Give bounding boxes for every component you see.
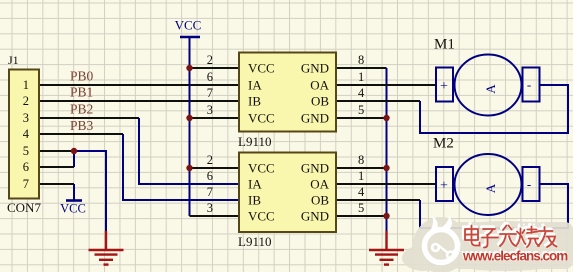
svg-text:8: 8: [358, 53, 364, 67]
svg-text:PB1: PB1: [70, 85, 93, 100]
wire VCC rail to U2.3: [190, 215, 240, 217]
power VCC bottom symbol: [66, 199, 82, 202]
svg-text:2: 2: [23, 94, 29, 108]
svg-text:OA: OA: [310, 78, 329, 93]
junction dot VCC/U2.2: [186, 165, 192, 171]
wire U1.5 GND stub: [336, 117, 387, 119]
svg-text:1: 1: [23, 78, 29, 92]
svg-text:L9110: L9110: [238, 134, 271, 149]
wire VCC rail to U1.2: [190, 67, 240, 69]
svg-text:IA: IA: [248, 78, 262, 93]
svg-text:IB: IB: [248, 193, 261, 208]
junction dot GND/U2.5: [383, 213, 389, 219]
connector J1 body: [9, 70, 39, 199]
svg-text:OB: OB: [311, 94, 329, 109]
junction dot J1.5: [71, 148, 77, 154]
watermark text dianzifashaoyou: [464, 224, 556, 246]
svg-text:5: 5: [358, 103, 364, 117]
svg-text:CON7: CON7: [7, 200, 41, 215]
svg-text:4: 4: [358, 86, 365, 100]
svg-text:L9110: L9110: [238, 234, 271, 249]
svg-text:-: -: [527, 77, 531, 92]
wire U1.8 GND to right rail: [336, 67, 387, 69]
wire U1.OA to M1 plus: [336, 84, 436, 86]
junction dot VCC/U1.3: [186, 115, 192, 121]
svg-text:7: 7: [23, 177, 29, 191]
junction dot VCC/U1.2: [186, 65, 192, 71]
svg-text:4: 4: [23, 127, 30, 141]
svg-text:1: 1: [358, 70, 364, 84]
wire U2.OA to M2 plus: [336, 183, 436, 185]
wire VCC rail left vertical: [189, 37, 191, 216]
svg-text:2: 2: [207, 53, 213, 67]
svg-text:+: +: [440, 79, 448, 94]
svg-text:GND: GND: [301, 209, 329, 224]
wire U2.OB to M2 minus: [336, 199, 420, 201]
watermark blob: [402, 217, 573, 272]
wire J1.7 stub: [40, 183, 74, 185]
IC U1 L9110 body: [239, 53, 336, 132]
svg-text:+: +: [440, 179, 448, 194]
wire PB2 net J1.3 to U2.IA: [40, 117, 139, 119]
motor M2 minus terminal box: [523, 167, 540, 201]
wire U2.5 GND stub: [336, 215, 387, 217]
svg-text:5: 5: [23, 144, 29, 158]
svg-text:A: A: [483, 183, 498, 193]
svg-text:GND: GND: [301, 161, 329, 176]
svg-text:2: 2: [207, 153, 213, 167]
watermark logo circle: [425, 216, 461, 263]
wire J1.5 to ground: [40, 150, 74, 152]
svg-text:7: 7: [207, 86, 213, 100]
motor M2 circle: [455, 154, 522, 215]
svg-text:VCC: VCC: [248, 111, 275, 126]
svg-text:PB2: PB2: [70, 102, 93, 117]
svg-text:VCC: VCC: [248, 209, 275, 224]
wire VCC rail to U2.2: [190, 167, 240, 169]
svg-text:www.elecfans.com: www.elecfans.com: [462, 249, 568, 264]
wire J1.5-J1.6 vertical tie: [73, 151, 75, 167]
svg-text:3: 3: [207, 103, 213, 117]
svg-text:VCC: VCC: [248, 61, 275, 76]
junction dot GND/U2.8: [383, 165, 389, 171]
wire PB0 net J1.1 to U1.IA: [40, 84, 239, 86]
wire U1.OB to M1 minus: [336, 100, 420, 102]
ground GND1: [89, 231, 124, 265]
svg-text:VCC: VCC: [175, 18, 202, 33]
svg-text:M2: M2: [433, 136, 454, 152]
svg-text:-: -: [527, 177, 531, 192]
svg-text:4: 4: [358, 185, 365, 199]
svg-text:6: 6: [207, 169, 213, 183]
junction dot GND/U1.5: [383, 115, 389, 121]
svg-text:GND: GND: [301, 111, 329, 126]
motor M1 circle: [455, 55, 522, 116]
svg-text:IB: IB: [248, 94, 261, 109]
ground GND2: [369, 231, 404, 265]
wire PB1 net J1.2 to U1.IB: [40, 100, 239, 102]
motor M1 plus terminal box: [436, 68, 453, 102]
svg-text:VCC: VCC: [60, 202, 86, 216]
svg-text:6: 6: [207, 70, 213, 84]
svg-text:8: 8: [358, 153, 364, 167]
svg-text:M1: M1: [434, 37, 455, 53]
svg-text:A: A: [483, 84, 498, 94]
svg-text:PB3: PB3: [70, 118, 94, 133]
svg-text:IA: IA: [248, 177, 262, 192]
svg-text:6: 6: [23, 160, 29, 174]
svg-text:7: 7: [207, 185, 213, 199]
wire J1.7 to VCC power: [73, 184, 75, 200]
svg-text:1: 1: [358, 169, 364, 183]
svg-text:VCC: VCC: [248, 161, 275, 176]
svg-text:OA: OA: [310, 177, 329, 192]
svg-text:J1: J1: [8, 53, 19, 67]
wire PB3 net J1.4 to U2.IB: [40, 133, 123, 135]
wire U2.8 GND stub: [336, 167, 387, 169]
motor M2 plus terminal box: [436, 167, 453, 201]
motor M1 minus terminal box: [523, 68, 540, 102]
IC U2 L9110 body: [239, 153, 336, 233]
watermark deco dots: [518, 219, 535, 230]
wire GND rail right vertical: [386, 68, 388, 232]
svg-text:3: 3: [207, 201, 213, 215]
svg-text:3: 3: [23, 111, 29, 125]
svg-text:GND: GND: [301, 61, 329, 76]
svg-text:PB0: PB0: [70, 69, 94, 84]
wire J1.6 stub: [40, 166, 74, 168]
svg-text:5: 5: [358, 201, 364, 215]
svg-text:OB: OB: [311, 193, 329, 208]
wire VCC rail to U1.3: [190, 117, 240, 119]
